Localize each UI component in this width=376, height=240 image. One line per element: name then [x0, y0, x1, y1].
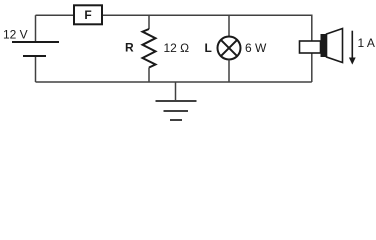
- lamp L circle with cross: [218, 37, 241, 60]
- speaker LS1: magnet bar: [321, 34, 327, 57]
- svg-text:1 A: 1 A: [358, 36, 375, 50]
- speaker LS1: cone: [327, 29, 343, 63]
- wire top: fuse to right corner, down to speaker: [103, 15, 312, 41]
- wire: speaker bottom lead: [311, 53, 313, 82]
- wire top: battery to fuse: [36, 14, 74, 16]
- resistor R zigzag: [143, 29, 156, 68]
- wire: battery top lead: [35, 15, 37, 42]
- wire bottom: battery to speaker: [36, 81, 312, 83]
- svg-text:L: L: [205, 41, 212, 55]
- svg-text:6 W: 6 W: [245, 41, 267, 55]
- wire: ground stub: [175, 82, 177, 101]
- ground symbol: [156, 101, 197, 120]
- svg-text:R: R: [125, 41, 134, 55]
- battery B1 plates: [12, 42, 59, 56]
- wire: battery bottom lead: [35, 56, 37, 82]
- speaker LS1: driver box: [300, 41, 321, 53]
- svg-text:12 Ω: 12 Ω: [164, 41, 190, 55]
- wire: resistor top lead: [148, 15, 150, 29]
- svg-text:F: F: [84, 8, 91, 22]
- wire: resistor bottom lead: [148, 68, 150, 83]
- fuse F box: [74, 5, 102, 24]
- current arrow 1 A: [349, 31, 356, 65]
- svg-text:12 V: 12 V: [3, 28, 28, 42]
- wire: lamp top lead: [228, 15, 230, 36]
- wire: lamp bottom lead: [228, 60, 230, 83]
